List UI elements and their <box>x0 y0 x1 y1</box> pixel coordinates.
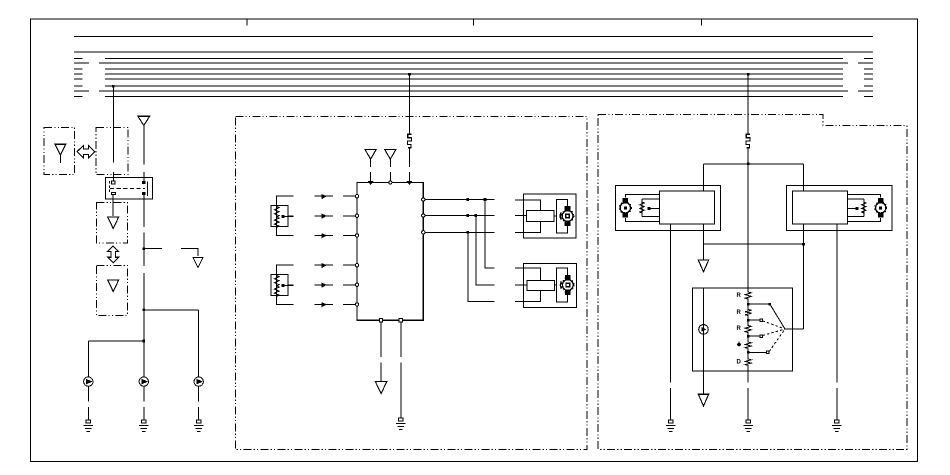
svg-text:R: R <box>737 293 742 299</box>
svg-text:R: R <box>737 326 742 332</box>
svg-text:D: D <box>737 360 742 366</box>
svg-text:R: R <box>737 310 742 316</box>
